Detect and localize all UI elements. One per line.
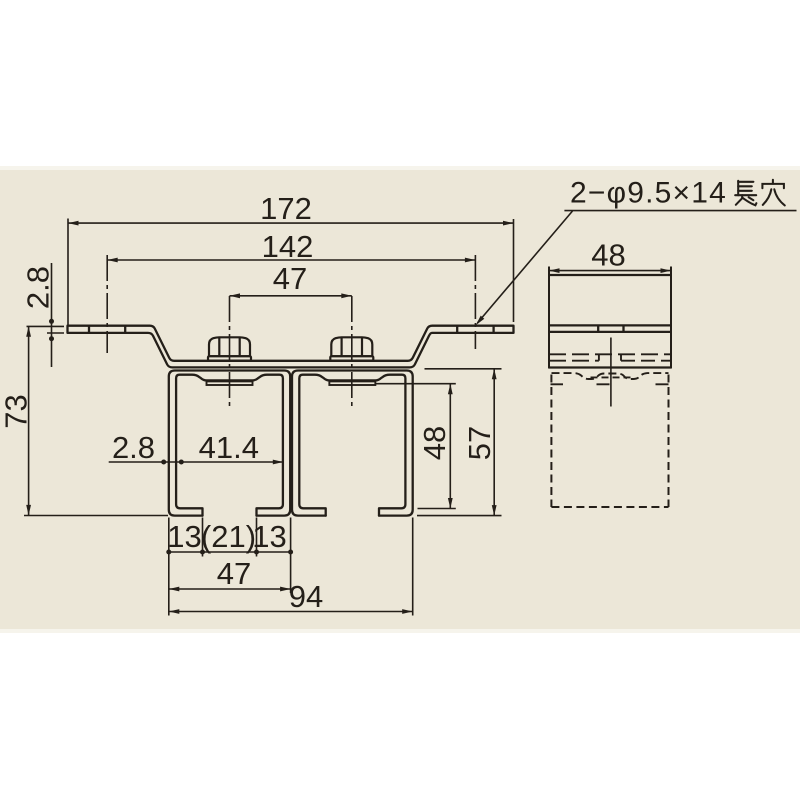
side view hidden rail box [550, 375, 552, 508]
svg-text:2.8: 2.8 [21, 266, 56, 309]
svg-text:(21): (21) [201, 519, 256, 554]
beige drawing background band [0, 168, 800, 632]
svg-text:48: 48 [591, 238, 625, 273]
leader note 2-9.5x14 slot [564, 210, 796, 212]
svg-text:2−φ9.5×14: 2−φ9.5×14 [570, 177, 727, 210]
right rail sliding nut [329, 381, 375, 385]
left rail outer profile [169, 371, 290, 516]
dim 94 [169, 611, 413, 613]
kanji "ana" (hole) [762, 180, 784, 206]
dim 142 [107, 259, 475, 261]
svg-text:73: 73 [0, 394, 34, 428]
dim 73 [28, 326, 30, 515]
right hex bolt [331, 337, 372, 356]
svg-text:2.8: 2.8 [112, 430, 155, 465]
bracket plate (hat profile, front view) [68, 326, 514, 368]
right rail outer profile [292, 371, 413, 516]
svg-text:41.4: 41.4 [199, 430, 259, 465]
left rail inner profile and lips [176, 375, 283, 516]
side view hidden rail top profile [552, 373, 669, 379]
right bolt centerline [351, 296, 353, 408]
side view hidden nut bar [591, 376, 631, 378]
slot edge marks on right flange [456, 326, 458, 333]
left hex bolt [209, 337, 250, 356]
dim 57 rail height [425, 368, 502, 370]
side view center line [610, 338, 612, 407]
ext lines bottom chain [168, 518, 170, 616]
side view hidden plate lines [549, 353, 671, 355]
svg-text:94: 94 [289, 579, 323, 614]
dim 48 side view [549, 270, 671, 272]
side view solid box [548, 267, 550, 369]
dim 2.8 / 41.4 channel [109, 461, 284, 463]
dim 13 (21) 13 [169, 551, 291, 553]
svg-text:13: 13 [167, 519, 201, 554]
kanji "naga" (long) [735, 181, 756, 206]
svg-text:47: 47 [217, 556, 251, 591]
left bolt centerline [229, 296, 231, 408]
left rail sliding nut [207, 381, 253, 385]
side view hidden sparse line [551, 383, 564, 385]
dim 172 [67, 219, 69, 326]
svg-text:172: 172 [260, 191, 312, 226]
svg-text:47: 47 [273, 261, 307, 296]
svg-text:13: 13 [252, 519, 286, 554]
svg-text:57: 57 [462, 426, 497, 460]
slot edge marks on left flange [88, 326, 90, 333]
svg-text:48: 48 [417, 426, 452, 460]
right rail inner profile and lips [299, 375, 405, 516]
dim 48 channel inner height [375, 383, 456, 385]
left slot centerline [106, 255, 108, 353]
dim 47 top [230, 295, 352, 297]
right slot centerline [474, 255, 476, 349]
dim 47 bottom [169, 588, 291, 590]
dim 2.8 plate thickness [27, 325, 65, 327]
side view slot section edges [597, 325, 599, 332]
svg-text:142: 142 [262, 229, 314, 264]
